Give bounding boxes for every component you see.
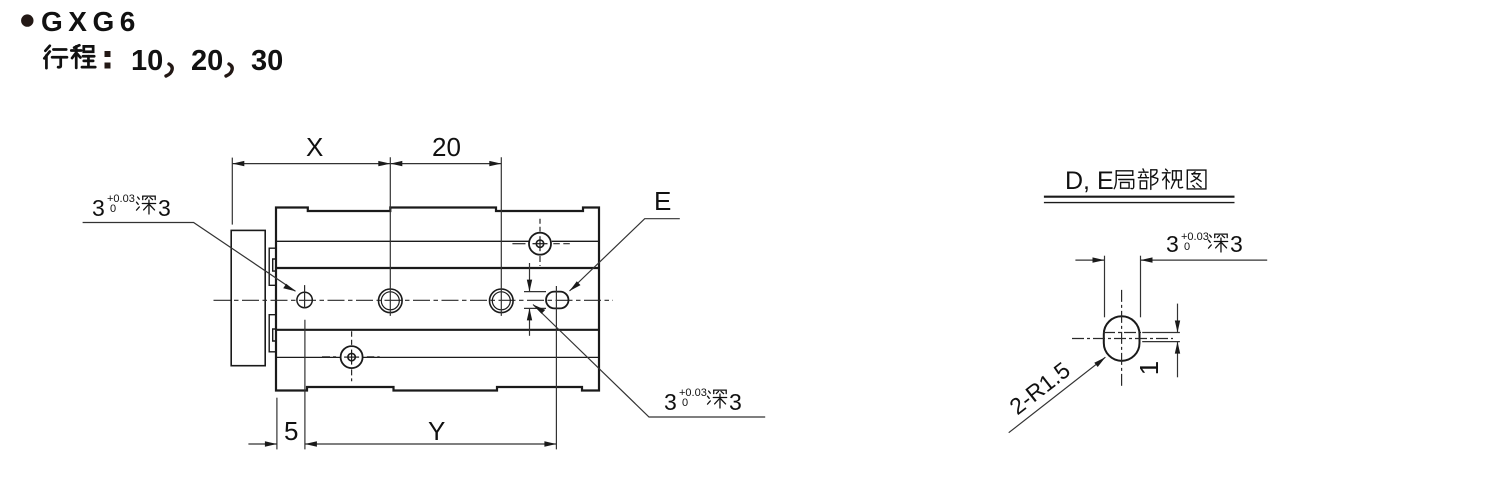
svg-text:0: 0 xyxy=(110,203,116,215)
interior line y=241.3 (broken at top counterbore) xyxy=(276,240,529,242)
slot 3-dim vertical line + outside arrows xyxy=(529,263,531,292)
slot E (obround) xyxy=(546,292,568,309)
X dimension xyxy=(231,158,233,225)
svg-text:E: E xyxy=(654,186,671,216)
Y dimension xyxy=(555,286,557,449)
5 dimension xyxy=(276,398,278,450)
detail 3-dim line with outside arrows xyxy=(1075,259,1104,261)
20 dimension xyxy=(500,157,502,316)
interior thick line y=268 xyxy=(276,267,599,269)
top counterbore centerline cross xyxy=(539,236,541,251)
double underline xyxy=(1044,196,1235,198)
interior thick line y=329.8 xyxy=(276,329,599,331)
plate tab upper xyxy=(269,248,276,285)
detail slot (obround, vertical) xyxy=(1104,316,1140,361)
hole 2 tapped xyxy=(379,289,403,313)
interior line y=357.4 (broken at bottom counterbore) xyxy=(276,356,341,358)
plate tab lower xyxy=(269,315,276,352)
2-R1.5 leader xyxy=(1009,357,1106,433)
1-dim ext lines xyxy=(1142,332,1180,334)
svg-text:30: 30 xyxy=(251,45,283,77)
bottom counterbore centerline cross xyxy=(351,350,353,365)
fullwidth colon xyxy=(105,51,111,57)
svg-text:0: 0 xyxy=(1184,241,1190,253)
horizontal centerline xyxy=(214,299,614,301)
plate tab lower inner step xyxy=(273,329,276,341)
line2: 行程：10，20，30 xyxy=(44,46,67,68)
bullet xyxy=(21,14,33,26)
plate tab upper inner step xyxy=(273,259,276,271)
label 2: 3 +0.03/0 deep 3 (bottom right) xyxy=(533,305,765,418)
svg-text:3: 3 xyxy=(1166,231,1179,257)
hole 1 (3 deep 3) xyxy=(297,292,312,307)
svg-text:2-R1.5: 2-R1.5 xyxy=(1004,357,1074,420)
body outline with notched top/bottom edges xyxy=(276,208,599,391)
top counterbore hole xyxy=(529,233,551,255)
bottom counterbore hole xyxy=(341,346,363,368)
svg-text:3: 3 xyxy=(664,389,677,415)
svg-text:10: 10 xyxy=(131,45,163,77)
svg-text:3: 3 xyxy=(729,389,742,415)
svg-text:20: 20 xyxy=(191,45,223,77)
bottom counterbore centerline dashes xyxy=(351,331,353,345)
svg-text:5: 5 xyxy=(284,416,298,446)
end plate xyxy=(231,230,265,365)
svg-text:Y: Y xyxy=(428,416,445,446)
svg-text:0: 0 xyxy=(682,397,688,409)
slot 3-dim extension lines xyxy=(524,291,546,293)
1-dim arrows xyxy=(1177,304,1179,333)
hole 3 tapped xyxy=(490,289,514,313)
svg-text:GXG6: GXG6 xyxy=(41,6,141,37)
label 1: 3 +0.03/0 deep 3 (top left) xyxy=(83,193,296,291)
detail ext lines xyxy=(1104,256,1106,318)
svg-text:D, E: D, E xyxy=(1065,167,1114,195)
svg-text:X: X xyxy=(306,132,323,162)
top counterbore centerline dashes xyxy=(539,219,541,232)
svg-text:1: 1 xyxy=(1134,361,1164,375)
svg-text:3: 3 xyxy=(158,195,171,221)
svg-text:3: 3 xyxy=(92,195,105,221)
svg-text:20: 20 xyxy=(432,132,461,162)
svg-text:3: 3 xyxy=(1230,231,1243,257)
detail centerlines xyxy=(1072,338,1173,340)
